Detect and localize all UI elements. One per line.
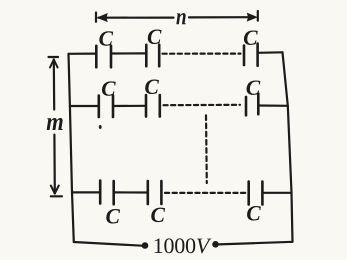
label C3 (244, 30, 258, 44)
wire row2 dashed (164, 104, 241, 107)
label C8 (151, 208, 165, 222)
dimension line n (96, 11, 258, 22)
label C1 (99, 31, 113, 45)
wire bottom left (74, 242, 142, 246)
capacitor C2 (146, 45, 159, 66)
label C2 (148, 30, 162, 44)
wire row3 dashed (165, 192, 246, 194)
capacitor C4 (99, 96, 113, 118)
wire row3 segment b (114, 191, 148, 193)
wire row3 segment a (72, 191, 100, 193)
label C7 (106, 209, 120, 223)
label m (47, 118, 63, 130)
wire left vertical (69, 54, 74, 242)
dimension arrow m (49, 57, 63, 196)
wire row1 segment a (69, 52, 97, 54)
capacitor C3 (244, 44, 258, 66)
capacitor C5 (146, 95, 160, 117)
wire row1 segment b (111, 52, 146, 54)
node right terminal (212, 241, 219, 248)
capacitor C1 (96, 46, 111, 67)
node left terminal (142, 242, 149, 249)
wire row1 segment c (258, 51, 283, 54)
capacitor C9 (249, 182, 263, 205)
label C4 (102, 81, 116, 95)
wire row2 segment c (258, 104, 288, 107)
label n (176, 13, 185, 24)
wire bottom right (219, 242, 293, 245)
capacitor C6 (246, 94, 258, 116)
label C6 (247, 80, 261, 94)
label 1000V (155, 238, 212, 253)
wire row2 segment b (113, 105, 146, 107)
capacitor C8 (148, 181, 162, 204)
wire right vertical (283, 52, 293, 242)
label C9 (247, 206, 261, 220)
wire row1 dashed (163, 52, 241, 54)
label C5 (145, 80, 159, 94)
wire row2 segment a (70, 105, 99, 107)
wire row3 segment c (262, 192, 291, 194)
wire dashed vertical (205, 115, 208, 183)
capacitor C7 (100, 181, 114, 205)
